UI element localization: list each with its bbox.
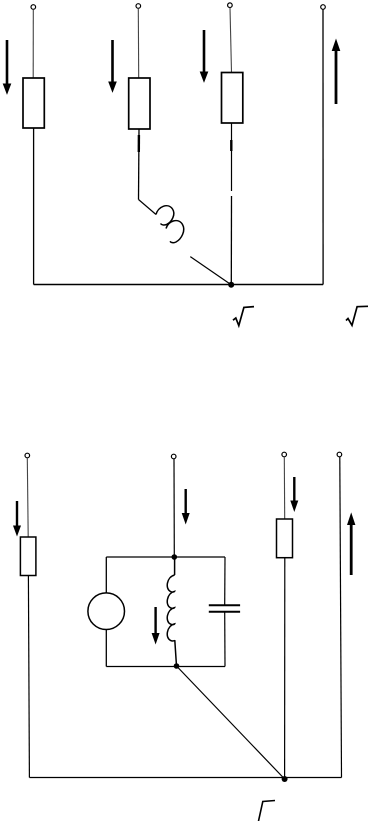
loop top wire — [106, 556, 225, 558]
inductor L2 (vertical coil, four bumps) — [167, 557, 176, 666]
current arrow I4 (up) — [332, 40, 339, 104]
wire R2 down — [138, 129, 141, 200]
junction node (top circuit) — [228, 282, 234, 288]
wire R3 to junction (with small gap) — [231, 123, 233, 191]
terminal 3 (top circuit) — [228, 3, 233, 8]
wire terminal1 to R4 — [26, 458, 29, 537]
current arrow I2 (down) — [109, 40, 116, 92]
gamma label — [259, 801, 276, 821]
resistor R3 — [222, 73, 243, 124]
loop left wire lower — [105, 630, 107, 667]
terminal 3 (bottom circuit) — [282, 452, 287, 457]
check mark 1 (sqrt symbol) — [233, 307, 254, 326]
wire terminal3 to R3 — [230, 8, 232, 73]
capacitor C1 top lead — [224, 557, 226, 605]
terminal 1 (top circuit) — [31, 5, 36, 10]
bottom bus wire (bottom circuit) — [29, 777, 341, 779]
wire R1 to bottom bus — [33, 128, 35, 285]
loop bottom wire — [106, 666, 225, 668]
capacitor C1 bottom lead — [224, 612, 226, 667]
inductor L1 (diagonal coil, two loops) — [156, 206, 184, 243]
wire terminal1 to R1 — [32, 9, 34, 78]
wire terminal4 to bottom bus — [340, 457, 342, 778]
bottom bus wire (top circuit) — [34, 284, 324, 286]
resistor R2 — [129, 78, 150, 129]
terminal 1 (bottom circuit) — [25, 453, 30, 458]
current arrow IB3 (down) — [291, 477, 298, 511]
wire terminal2 to R2 — [137, 8, 139, 78]
capacitor C1 plates — [209, 604, 240, 606]
wire terminal2 to top node — [173, 459, 175, 557]
wire diagonal into coil — [139, 200, 157, 215]
wire coil to junction (diagonal) — [190, 257, 231, 285]
bottom node (parallel group) — [174, 663, 180, 669]
resistor R1 — [23, 78, 44, 128]
resistor R4 — [20, 537, 36, 576]
wire R4 to bottom bus — [28, 576, 29, 778]
terminal 2 (top circuit) — [136, 4, 141, 9]
loop left wire upper — [105, 557, 107, 593]
source G1 (circle) — [88, 593, 125, 630]
current arrow IL (down, inside loop) — [152, 607, 159, 643]
current arrow IB1 (down) — [14, 501, 21, 535]
check mark 2 (sqrt symbol) — [346, 306, 368, 325]
junction node (bottom circuit) — [282, 776, 288, 782]
top node (parallel group) — [172, 554, 178, 560]
resistor R5 — [277, 519, 293, 558]
wire terminal4 to bottom bus — [322, 9, 324, 284]
wire terminal3 to R5 — [283, 457, 285, 519]
current arrow I1 (down) — [3, 40, 10, 94]
terminal 4 (top circuit) — [321, 5, 326, 10]
wire R5 to junction — [284, 558, 286, 779]
current arrow IB4 (up) — [348, 514, 355, 575]
diagonal wire node to junction — [177, 666, 285, 779]
current arrow I3 (down) — [200, 30, 207, 82]
current arrow IB2 (down) — [182, 489, 189, 523]
terminal 2 (bottom circuit) — [171, 454, 176, 459]
terminal 4 (bottom circuit) — [337, 452, 342, 457]
